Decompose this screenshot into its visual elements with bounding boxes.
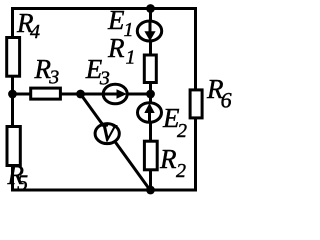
label R2	[159, 144, 186, 182]
label R4	[16, 8, 40, 43]
svg-text:3: 3	[48, 67, 59, 89]
label E3	[85, 54, 110, 90]
svg-text:1: 1	[126, 47, 136, 69]
svg-text:R: R	[159, 144, 177, 174]
svg-text:4: 4	[30, 21, 40, 43]
resistor R6	[190, 90, 202, 118]
label E2	[162, 103, 187, 142]
label R3	[34, 54, 60, 89]
junction node middle wire / center branch	[146, 90, 155, 99]
svg-text:6: 6	[221, 88, 232, 113]
label R1	[107, 33, 136, 69]
EMF source E1	[137, 21, 161, 41]
voltmeter V	[95, 121, 119, 146]
wire middle horizontal	[13, 93, 151, 96]
junction node on bottom wire	[146, 186, 155, 195]
resistor R3	[31, 88, 61, 99]
resistor R1	[144, 55, 156, 83]
svg-text:2: 2	[177, 120, 187, 142]
wire center branch vertical	[149, 9, 152, 191]
svg-text:R: R	[107, 33, 125, 63]
junction node on top wire	[146, 4, 155, 13]
junction node after R3 (voltmeter tap)	[76, 90, 85, 99]
svg-text:5: 5	[17, 170, 28, 195]
EMF source E3	[103, 84, 127, 104]
svg-text:2: 2	[176, 160, 186, 182]
EMF source E2	[138, 103, 162, 123]
svg-text:3: 3	[99, 68, 110, 90]
svg-text:1: 1	[124, 19, 134, 41]
label R6	[206, 74, 232, 113]
svg-text:E: E	[107, 5, 125, 35]
resistor R5	[7, 127, 20, 166]
resistor R2	[144, 141, 157, 170]
wire outer loop	[13, 9, 196, 191]
junction node left wire / middle wire	[8, 90, 17, 99]
label E1	[107, 5, 134, 41]
wire voltmeter diagonal	[81, 94, 151, 190]
resistor R4	[7, 38, 20, 77]
label R5	[7, 160, 29, 195]
